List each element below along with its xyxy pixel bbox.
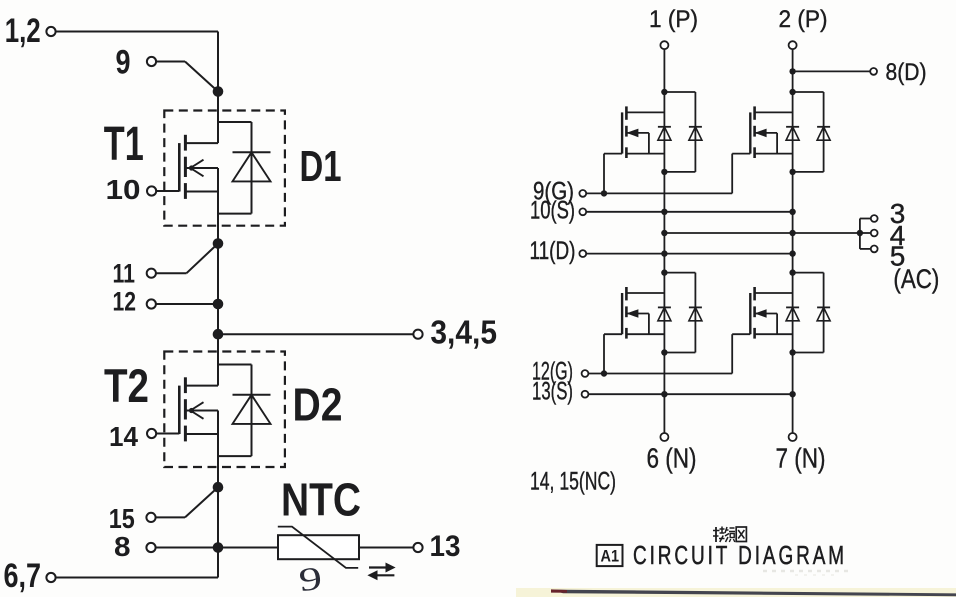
svg-text:10: 10 [106,174,141,205]
svg-text:15: 15 [109,503,135,534]
svg-text:D2: D2 [293,379,343,431]
svg-text:9: 9 [116,44,131,82]
svg-text:6,7: 6,7 [4,557,42,595]
svg-text:8(D): 8(D) [886,59,927,86]
svg-text:14, 15(NC): 14, 15(NC) [530,468,616,496]
svg-text:2 (P): 2 (P) [779,6,828,33]
svg-text:10(S): 10(S) [530,197,575,225]
svg-text:T2: T2 [104,359,149,412]
svg-text:NTC: NTC [281,474,361,526]
svg-text:6 (N): 6 (N) [647,443,697,474]
svg-text:14: 14 [109,421,138,452]
svg-text:CIRCUIT DIAGRAM: CIRCUIT DIAGRAM [633,540,847,570]
svg-text:11: 11 [113,258,136,288]
svg-text:13(S): 13(S) [532,378,573,406]
svg-text:3,4,5: 3,4,5 [430,314,497,351]
svg-text:(AC): (AC) [893,264,939,294]
svg-text:8: 8 [114,531,131,562]
svg-text:13: 13 [430,530,461,563]
svg-text:9: 9 [297,561,324,597]
svg-text:12: 12 [113,286,137,316]
svg-text:T1: T1 [104,118,144,171]
svg-text:1 (P): 1 (P) [649,6,698,33]
svg-text:11(D): 11(D) [530,237,576,265]
svg-text:D1: D1 [300,142,342,191]
svg-text:7 (N): 7 (N) [776,443,826,474]
svg-text:1,2: 1,2 [5,12,41,50]
svg-text:A1: A1 [601,547,620,566]
